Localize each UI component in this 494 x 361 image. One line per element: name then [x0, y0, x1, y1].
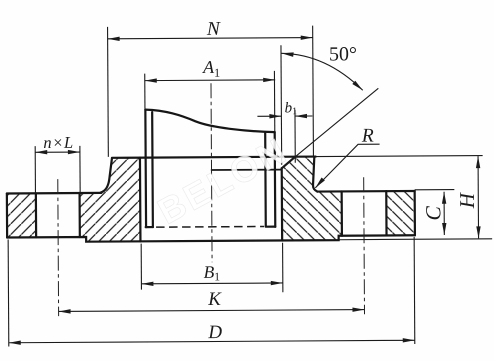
svg-text:N: N — [206, 19, 221, 40]
svg-text:H: H — [455, 191, 479, 209]
svg-text:R: R — [361, 126, 374, 147]
svg-text:B1: B1 — [203, 262, 220, 284]
svg-text:BELON: BELON — [151, 129, 295, 232]
svg-text:50°: 50° — [329, 43, 357, 65]
svg-text:A1: A1 — [202, 57, 220, 80]
svg-text:C: C — [421, 205, 445, 220]
svg-text:D: D — [207, 322, 222, 343]
svg-text:b1: b1 — [285, 100, 298, 117]
svg-text:n×L: n×L — [43, 133, 73, 152]
svg-text:K: K — [207, 289, 222, 310]
